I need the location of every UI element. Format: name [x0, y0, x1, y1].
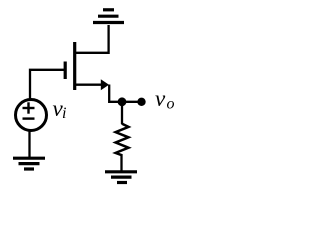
ground (bottom right) [105, 172, 137, 183]
transistor M1 channel bar [73, 42, 76, 90]
wire: source arrow down to output node [109, 85, 142, 102]
transistor M1 source wire with arrow [76, 79, 109, 90]
wire: drain up to top rail ground [76, 25, 109, 53]
svg-text:i: i [62, 105, 66, 122]
label vo [155, 86, 175, 113]
junction node (output branch) [118, 97, 127, 106]
ground (bottom left) [13, 158, 45, 169]
wire: source bottom to ground [28, 130, 30, 157]
wire: resistor to bottom ground [120, 154, 122, 171]
label vi [53, 96, 67, 122]
node vo terminal dot [137, 98, 145, 106]
svg-text:v: v [155, 86, 166, 111]
resistor R (zigzag) [116, 124, 129, 156]
wire: junction down to resistor [121, 102, 123, 124]
voltage source Vi (circle with +/-) [16, 100, 47, 131]
transistor M1 gate bar [64, 62, 67, 80]
wire: source top up and right to gate [30, 70, 64, 99]
ground (top, rail) inverted [93, 10, 124, 23]
svg-text:o: o [167, 96, 175, 113]
